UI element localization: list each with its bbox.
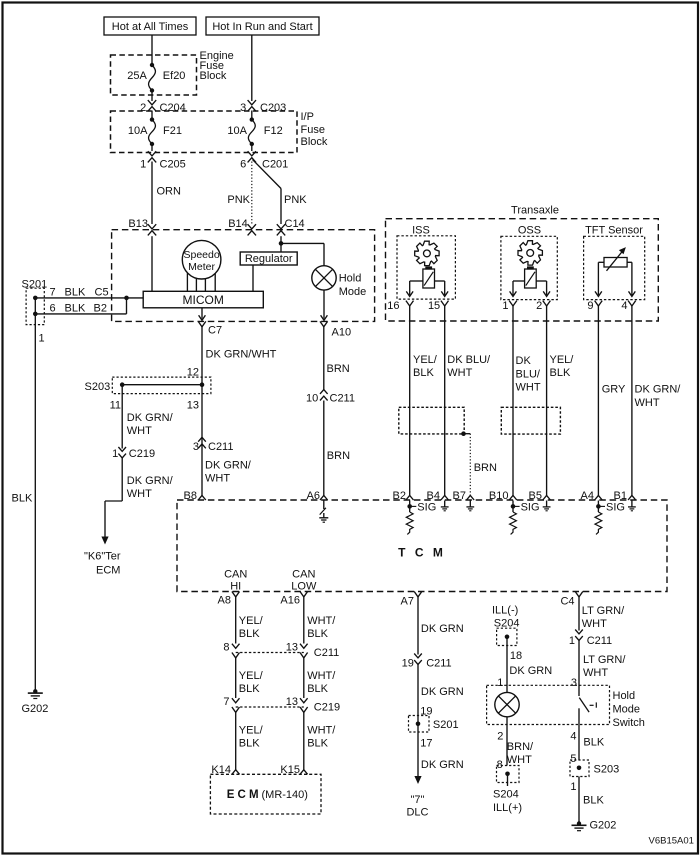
wire BLK pin 6 splice (B2) [35,313,126,315]
svg-text:13: 13 [286,696,298,708]
wire BLK splice S201 to ground G202 [34,298,36,691]
svg-text:YEL/: YEL/ [550,354,575,366]
svg-text:BRN: BRN [327,363,350,375]
svg-text:SIG: SIG [417,502,436,514]
svg-text:DK GRN: DK GRN [509,665,552,677]
svg-text:WHT: WHT [127,488,152,500]
TCM pin B2 [406,495,414,500]
ISS pin 16 [406,301,414,306]
wire Regulator to MICOM [252,265,254,291]
wire YEL/BLK OSS pin2 to TCM B5 [546,305,548,495]
svg-text:WHT/: WHT/ [307,725,336,737]
svg-text:DK GRN/WHT: DK GRN/WHT [206,349,277,361]
svg-text:B8: B8 [184,490,197,502]
svg-text:CAN: CAN [224,569,247,581]
svg-text:C211: C211 [208,441,233,453]
svg-text:4: 4 [621,300,627,312]
TCM pin B10 [509,495,517,500]
svg-text:17: 17 [420,738,432,750]
svg-text:C219: C219 [129,448,155,460]
svg-text:DK GRN/: DK GRN/ [635,384,682,396]
connector C211 pin 1 [575,630,583,634]
svg-text:C211: C211 [314,647,339,659]
svg-text:SIG: SIG [521,502,540,514]
svg-text:2: 2 [497,730,503,742]
svg-text:19: 19 [402,657,414,669]
svg-text:7: 7 [50,287,56,299]
fuse F12 10A [251,111,253,120]
Regulator box [240,252,297,265]
svg-text:C205: C205 [160,159,186,171]
svg-text:C4: C4 [560,596,574,608]
TCM pin A6 [320,495,328,500]
connector C205 pin 1 [148,151,156,156]
svg-text:E C M: E C M [227,789,259,801]
TFT Sensor box [584,236,645,299]
svg-text:OSS: OSS [518,225,541,237]
connector B13 [148,224,156,229]
svg-text:10: 10 [306,393,318,405]
wire BLK switch pin 4 to splice S203 [578,708,580,760]
svg-text:WHT: WHT [205,473,230,485]
svg-text:"7": "7" [411,794,425,806]
svg-text:TFT Sensor: TFT Sensor [585,225,643,237]
svg-text:3: 3 [571,677,577,689]
svg-text:BLK: BLK [239,683,260,695]
svg-text:Hold: Hold [613,690,636,702]
svg-text:BLK: BLK [413,367,434,379]
svg-text:(MR-140): (MR-140) [262,789,308,801]
connector C14 [277,224,285,229]
svg-text:1: 1 [112,448,118,460]
svg-text:B2: B2 [94,303,107,315]
Hold Mode indicator lamp [312,266,336,290]
svg-text:13: 13 [187,400,199,412]
shield around OSS wires (dashed) [501,407,560,434]
svg-text:2: 2 [536,300,542,312]
wire from Hot In Run and Start to connector C203 [251,35,253,101]
TCM pin B1 [628,495,636,500]
svg-text:S203: S203 [85,381,111,393]
svg-text:DK GRN: DK GRN [421,623,464,635]
wire YEL/BLK C219 to ECM K14 [235,712,237,770]
B2 internal SIG pull-up resistor [409,501,411,513]
TFT thermistor (variable resistor) [604,258,627,268]
wire DK GRN splice S204 to lamp pin 1 [506,637,508,693]
svg-text:B10: B10 [489,490,509,502]
svg-text:Mode: Mode [339,286,367,298]
svg-text:ORN: ORN [157,186,182,198]
svg-text:Block: Block [301,136,328,148]
svg-text:BRN/: BRN/ [507,741,534,753]
svg-text:Meter: Meter [188,261,215,273]
svg-text:WHT: WHT [635,397,660,409]
svg-text:"K6"Ter: "K6"Ter [84,551,121,563]
svg-text:Regulator: Regulator [245,253,293,265]
svg-text:LOW: LOW [291,581,317,593]
ISS gear wheel [415,241,439,265]
svg-text:DLC: DLC [406,807,428,819]
svg-text:ISS: ISS [412,225,430,237]
power feed box "Hot at All Times" [104,17,196,35]
svg-text:A10: A10 [332,327,352,339]
ground G202 (left) [33,689,37,693]
svg-text:Transaxle: Transaxle [511,205,559,217]
svg-text:HI: HI [230,581,241,593]
wire BRN A10 to C211 [323,326,325,390]
svg-text:3: 3 [193,441,199,453]
svg-text:Fuse: Fuse [301,124,325,136]
svg-text:DK: DK [516,355,532,367]
wire BRN/WHT lamp pin 2 to splice S204 ILL(+) [506,717,508,766]
svg-text:DK GRN/: DK GRN/ [127,475,174,487]
connector C219 pin 7 [232,698,240,703]
Transaxle box (dashed) [386,219,659,321]
OSS sensor wires to pins [513,280,525,282]
TCM box (dashed) [177,500,667,592]
svg-text:YEL/: YEL/ [239,615,264,627]
svg-text:C5: C5 [95,287,109,299]
wire LT GRN/WHT C211 to Hold Mode Switch pin 3 [578,641,580,697]
ISS sensor wires to pins [410,280,423,282]
connector C211 pin 3 [198,437,206,441]
ground G202 (right) [577,821,581,825]
TCM pin B5 [543,495,551,500]
wire DK GRN C211 to splice S201 [417,665,419,777]
svg-text:15: 15 [428,300,440,312]
svg-text:10A: 10A [227,125,247,137]
power feed box "Hot In Run and Start" [206,17,319,35]
TCM pin A4 [595,495,603,500]
svg-text:C204: C204 [160,102,186,114]
svg-text:C201: C201 [262,159,288,171]
TCM pin A7 [414,592,422,597]
svg-text:C211: C211 [587,635,612,647]
wire LT GRN/WHT C4 to C211 pin 1 [578,597,580,631]
svg-text:T C M: T C M [398,546,446,560]
A4 internal SIG pull-up resistor [597,501,599,513]
svg-text:ECM: ECM [96,565,120,577]
Hold Mode Switch contacts [579,698,589,713]
B7 internal ground [469,501,471,507]
wire BRN C211 to A6 [323,401,325,496]
ISS inductive sensor [425,266,432,269]
svg-text:WHT: WHT [507,754,532,766]
svg-text:F12: F12 [264,125,283,137]
TCM pin B7 [467,495,475,500]
svg-text:G202: G202 [22,703,49,715]
svg-text:WHT: WHT [516,382,541,394]
wire BLK pin 7 splice to MICOM (C5) [35,297,143,299]
ECM pin K14 [232,770,240,775]
svg-text:13: 13 [286,642,298,654]
wire DK GRN/WHT splice S203 to C219 [121,385,123,449]
splice S204 ILL(+) [497,766,520,783]
B10 internal SIG pull-up resistor [512,501,514,513]
svg-text:Block: Block [200,70,227,82]
svg-text:Hot at All Times: Hot at All Times [112,21,189,33]
svg-text:DK BLU/: DK BLU/ [447,354,491,366]
wire DK BLU/WHT ISS pin15 to TCM B4 [444,305,446,495]
svg-text:PNK: PNK [284,194,307,206]
svg-text:G202: G202 [590,820,617,832]
svg-text:7: 7 [223,696,229,708]
svg-text:Speedo: Speedo [183,249,219,261]
svg-text:B4: B4 [427,490,440,502]
wire GRY TFT pin9 to TCM A4 [597,305,599,495]
svg-text:A7: A7 [401,596,414,608]
wire DK GRN/WHT C219 to ECM K6 terminal [121,458,123,501]
svg-text:LT GRN/: LT GRN/ [583,654,626,666]
svg-text:PNK: PNK [227,194,250,206]
svg-text:1: 1 [502,300,508,312]
Hold Mode illumination lamp [495,692,519,716]
svg-text:BLK: BLK [307,738,328,750]
svg-text:WHT: WHT [583,667,608,679]
svg-text:DK GRN: DK GRN [421,759,464,771]
connector C211 pin 10 [320,390,328,394]
svg-text:1: 1 [497,677,503,689]
svg-text:Ef20: Ef20 [163,70,186,82]
svg-text:5: 5 [570,753,576,765]
connector B14 [248,224,256,229]
wire YEL/BLK A8 to C211 pin 8 [235,597,237,644]
svg-text:B7: B7 [453,490,466,502]
svg-text:BRN: BRN [474,462,497,474]
svg-text:WHT: WHT [582,618,607,630]
shield around ISS wires (dashed) [399,407,464,434]
svg-text:BLK: BLK [65,287,86,299]
fuse Ef20 25A [150,63,154,67]
svg-text:C14: C14 [285,218,305,230]
connector C219 pin 13 [300,698,308,703]
wire WHT/BLK C219 to ECM K15 [303,712,305,770]
ECM pin K15 [300,770,308,775]
svg-text:BLU/: BLU/ [516,368,541,380]
svg-text:2: 2 [140,102,146,114]
wire DK GRN/WHT TFT pin4 to TCM B1 [631,305,633,495]
ECM box (dashed) [210,774,321,814]
wire DK GRN/WHT C7 to splice S203 [201,326,203,496]
svg-text:DK GRN/: DK GRN/ [127,412,174,424]
svg-text:LT GRN/: LT GRN/ [582,605,625,617]
svg-text:ILL(-): ILL(-) [492,605,518,617]
fuse F21 10A [151,111,153,120]
wire WHT/BLK A16 to C211 pin 13 [303,597,305,644]
TCM pin B4 [441,495,449,500]
svg-text:C211: C211 [330,393,355,405]
svg-text:SIG: SIG [606,502,625,514]
wire C14 into cluster to Regulator [280,236,282,252]
wire DK GRN A7 to C211 pin 19 [417,597,419,655]
svg-text:A6: A6 [307,490,320,502]
svg-text:WHT/: WHT/ [307,670,336,682]
OSS inductive sensor [527,266,534,269]
svg-text:MICOM: MICOM [183,293,224,307]
junction node on C14 wire [279,241,284,246]
svg-text:1: 1 [569,635,575,647]
svg-text:CAN: CAN [292,569,315,581]
svg-text:WHT: WHT [127,425,152,437]
svg-text:3: 3 [240,102,246,114]
connector C203 pin 3 [248,100,256,105]
connector C211 pin 13 (CAN LOW) [300,644,308,649]
wire PNK from C201 to C14 [253,160,282,189]
wire ORN from C205 to B13 [151,162,153,225]
TCM pin C4 [575,592,583,597]
svg-text:B5: B5 [529,490,542,502]
svg-text:Hot In Run and Start: Hot In Run and Start [212,21,312,33]
svg-text:9: 9 [587,300,593,312]
svg-text:BLK: BLK [583,737,604,749]
connector C211 body (dashed link) [236,652,304,654]
svg-text:BLK: BLK [12,493,33,505]
svg-text:YEL/: YEL/ [413,354,438,366]
connector C219 pin 1 [118,447,126,451]
junction node C5/B2 [124,296,129,301]
wire junction to Hold Mode lamp [281,242,324,244]
TCM pin B8 [198,495,206,500]
wire fuse Ef20 to connector C204 [151,91,153,102]
connector C204 pin 2 [148,100,156,105]
wire YEL/BLK C211 to C219 pin 7 [235,657,237,698]
OSS gear wheel [518,241,542,265]
wire from Hot at All Times to fuse Ef20 [151,35,153,65]
svg-text:4: 4 [570,730,576,742]
wire DK BLU/WHT OSS pin1 to TCM B10 [512,305,514,495]
svg-text:ILL(+): ILL(+) [493,802,522,814]
wire YEL/BLK ISS pin16 to TCM B2 [409,305,411,495]
svg-text:Mode: Mode [613,703,641,715]
svg-text:C203: C203 [260,102,286,114]
wire lamp to A10 [323,290,325,318]
svg-text:Switch: Switch [613,717,645,729]
svg-text:YEL/: YEL/ [239,670,264,682]
svg-text:S204: S204 [493,789,519,801]
svg-text:18: 18 [510,650,522,662]
svg-text:S201: S201 [433,719,459,731]
svg-text:1: 1 [570,781,576,793]
svg-text:YEL/: YEL/ [239,725,264,737]
svg-text:10A: 10A [128,125,148,137]
svg-text:WHT/: WHT/ [307,615,336,627]
svg-text:6: 6 [240,159,246,171]
svg-text:BLK: BLK [583,795,604,807]
ISS pin 15 [441,301,449,306]
ISS speed sensor box [397,236,455,299]
svg-text:BRN: BRN [327,450,350,462]
svg-text:C219: C219 [314,702,340,714]
wire PNK from C201 to B14 (dotted) [251,162,253,225]
TFT pin 9 [595,301,603,306]
svg-text:BLK: BLK [239,738,260,750]
wire BRN shield drain to TCM B7 (dotted) [464,433,471,435]
svg-text:25A: 25A [127,70,147,82]
svg-text:BLK: BLK [65,303,86,315]
svg-text:S203: S203 [594,764,620,776]
svg-text:Hold: Hold [339,273,362,285]
connector C201 pin 6 [248,151,256,156]
svg-text:11: 11 [110,400,121,412]
svg-text:BLK: BLK [550,367,571,379]
svg-text:WHT: WHT [447,367,472,379]
MICOM box [143,291,263,308]
svg-text:C211: C211 [426,657,451,669]
svg-text:B1: B1 [614,490,627,502]
svg-text:1: 1 [140,159,146,171]
connector C211 pin 8 [232,644,240,649]
wire WHT/BLK C211 to C219 pin 13 [303,657,305,698]
svg-text:A8: A8 [218,595,231,607]
svg-text:B14: B14 [228,218,248,230]
B1 internal ground [631,501,633,507]
OSS pin 1 [509,301,517,306]
connector C211 pin 19 [414,654,422,658]
svg-text:BLK: BLK [307,628,328,640]
wire inside splice S203 [122,384,202,386]
svg-text:V6B15A01: V6B15A01 [649,836,694,847]
svg-text:8: 8 [223,642,229,654]
Hold Mode Switch box (dashed) [487,685,610,724]
TFT pin 4 [628,301,636,306]
B5 internal ground [546,501,548,507]
Engine Fuse Block (dashed) [111,55,197,95]
svg-text:A16: A16 [280,595,300,607]
svg-text:GRY: GRY [602,384,626,396]
connector A10 [320,321,328,326]
svg-text:6: 6 [50,303,56,315]
svg-text:DK GRN/: DK GRN/ [205,460,252,472]
svg-text:BLK: BLK [307,683,328,695]
svg-text:I/P: I/P [301,111,314,123]
wire BLK splice S203 to ground G202 [578,777,580,824]
wires Speedo Meter to MICOM [186,273,188,291]
svg-text:16: 16 [387,300,399,312]
connector C7 [201,308,203,319]
shield drain junction [461,431,466,436]
A6 internal case ground [323,501,325,510]
I/P Fuse Block (dashed) [111,111,298,153]
svg-text:B13: B13 [128,218,148,230]
Speedo Meter gauge [182,240,221,279]
wire B13 into cluster to MICOM [151,236,153,291]
svg-text:F21: F21 [163,125,182,137]
svg-text:1: 1 [39,333,45,345]
svg-text:DK GRN: DK GRN [421,686,464,698]
svg-text:A4: A4 [581,490,594,502]
instrument cluster box (dashed) [112,230,375,322]
svg-text:C7: C7 [208,325,222,337]
OSS speed sensor box [501,236,557,299]
TFT sensor wires to pins [598,261,604,263]
B4 internal ground [444,501,446,507]
svg-text:BLK: BLK [239,628,260,640]
connector C219 body (dashed link) [236,706,304,708]
svg-text:B2: B2 [393,490,406,502]
OSS pin 2 [543,301,551,306]
